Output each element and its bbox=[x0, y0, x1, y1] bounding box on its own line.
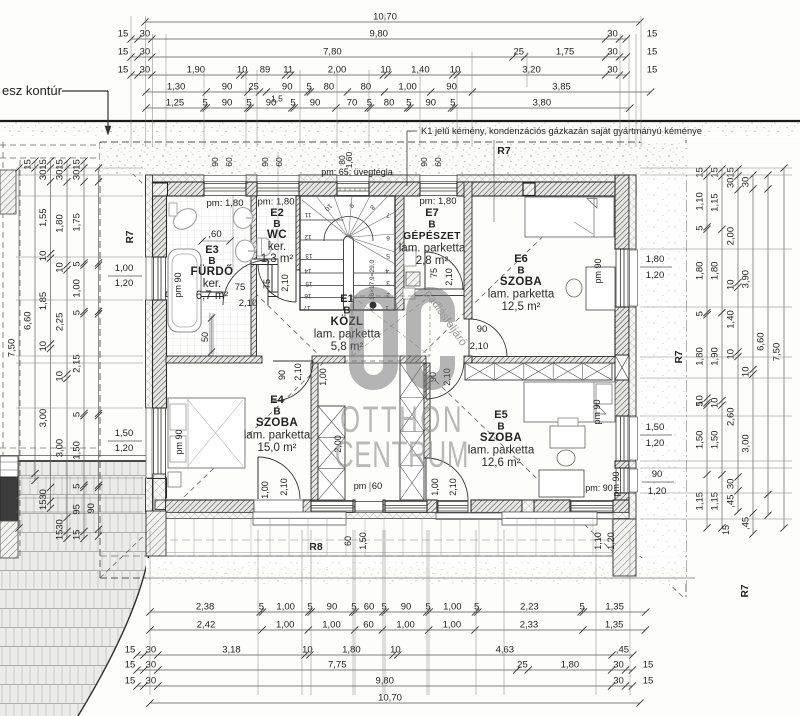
svg-text:15: 15 bbox=[726, 167, 737, 178]
exterior wall top: masonry bbox=[146, 182, 205, 196]
bottom witness verticals bbox=[149, 530, 151, 695]
svg-text:2,38: 2,38 bbox=[196, 602, 215, 613]
E5 bed bbox=[524, 382, 615, 422]
door bathroom (75) bbox=[267, 260, 269, 305]
top witness verticals bbox=[130, 16, 132, 147]
svg-text:75: 75 bbox=[429, 268, 439, 278]
svg-text:15: 15 bbox=[38, 499, 49, 510]
right wall crossed box at E6/E5 junction bbox=[615, 355, 629, 380]
svg-text:6: 6 bbox=[386, 234, 390, 241]
wall connector below wc bbox=[272, 265, 278, 293]
svg-text:90: 90 bbox=[446, 82, 457, 93]
neighbor wall hatch top-left bbox=[0, 170, 16, 214]
svg-text:80: 80 bbox=[361, 82, 372, 93]
svg-text:,60: ,60 bbox=[208, 229, 221, 240]
svg-text:90: 90 bbox=[652, 469, 663, 480]
passage lines corridor bbox=[345, 355, 400, 357]
wall wc/stairs V2 bbox=[296, 196, 302, 270]
svg-text:30: 30 bbox=[607, 29, 618, 40]
wc tile floor bbox=[256, 196, 296, 259]
E5 chair bbox=[557, 450, 575, 466]
chimney K1 hatched block bbox=[523, 183, 535, 196]
svg-text:1,00: 1,00 bbox=[72, 279, 83, 298]
svg-text:pm: 1,80: pm: 1,80 bbox=[207, 198, 244, 209]
svg-text:60: 60 bbox=[274, 157, 284, 167]
svg-text:25: 25 bbox=[248, 82, 259, 93]
svg-text:80: 80 bbox=[384, 98, 395, 109]
svg-text:7,75: 7,75 bbox=[328, 660, 347, 671]
svg-text:10: 10 bbox=[55, 262, 66, 273]
stipple band under contour line bbox=[0, 123, 800, 133]
svg-text:1,60: 1,60 bbox=[344, 151, 354, 168]
svg-text:3,85: 3,85 bbox=[552, 82, 571, 93]
svg-text:12: 12 bbox=[304, 233, 312, 240]
svg-text:7: 7 bbox=[386, 211, 390, 218]
right witness horizontals bbox=[640, 167, 792, 169]
svg-text:90: 90 bbox=[419, 157, 429, 167]
svg-text:lam. parketta: lam. parketta bbox=[488, 289, 555, 301]
svg-text:1,40: 1,40 bbox=[411, 65, 430, 76]
svg-text:15: 15 bbox=[305, 280, 313, 287]
svg-text:lam. parketta: lam. parketta bbox=[314, 329, 381, 341]
svg-text:15: 15 bbox=[643, 676, 654, 687]
svg-text:5: 5 bbox=[695, 401, 706, 406]
window W4 left (bathroom 90) bbox=[153, 257, 155, 300]
stipple band bottom bbox=[146, 558, 686, 584]
bathroom bottom wall bbox=[166, 292, 223, 297]
stair treads left flight bbox=[300, 219, 344, 221]
E4 bed double bbox=[168, 398, 245, 468]
svg-text:60: 60 bbox=[433, 157, 443, 167]
svg-text:3,90: 3,90 bbox=[741, 270, 752, 289]
svg-text:1,15: 1,15 bbox=[695, 492, 706, 511]
svg-text:90: 90 bbox=[310, 98, 321, 109]
svg-text:1,50: 1,50 bbox=[710, 431, 721, 450]
svg-text:1,20: 1,20 bbox=[115, 443, 134, 454]
ground line under terrace bbox=[146, 577, 695, 579]
svg-text:89: 89 bbox=[260, 65, 271, 76]
svg-text:1,15: 1,15 bbox=[710, 193, 721, 212]
svg-text:1,80: 1,80 bbox=[646, 254, 665, 265]
window W5 left (E4 1,50) bbox=[153, 408, 155, 478]
svg-text:30: 30 bbox=[613, 676, 624, 687]
svg-text:pm 90: pm 90 bbox=[592, 399, 602, 424]
svg-text:2,33: 2,33 bbox=[520, 620, 539, 631]
exterior wall right: masonry segments bbox=[615, 175, 629, 249]
svg-text:30: 30 bbox=[726, 479, 737, 490]
svg-text:1,20: 1,20 bbox=[115, 278, 134, 289]
svg-text:5: 5 bbox=[246, 98, 251, 109]
svg-text:1,3 m²: 1,3 m² bbox=[261, 253, 294, 265]
svg-text:30: 30 bbox=[607, 47, 618, 58]
stair central spine bbox=[343, 241, 345, 310]
svg-text:1,15: 1,15 bbox=[710, 492, 721, 511]
svg-text:2,10: 2,10 bbox=[444, 268, 454, 286]
wardrobe cabinet B (corridor/E5) bbox=[400, 363, 424, 500]
svg-text:esz kontúr: esz kontúr bbox=[2, 83, 63, 98]
svg-text:R8: R8 bbox=[309, 541, 323, 553]
svg-text:5: 5 bbox=[386, 252, 390, 259]
svg-text:25: 25 bbox=[517, 660, 528, 671]
svg-text:1,35: 1,35 bbox=[605, 620, 624, 631]
E5 desk bbox=[539, 470, 584, 497]
roof ridge bbox=[325, 360, 415, 362]
svg-text:15: 15 bbox=[643, 660, 654, 671]
svg-text:1,50: 1,50 bbox=[695, 431, 706, 450]
svg-text:6,60: 6,60 bbox=[756, 332, 767, 351]
bottom windows thin lines bbox=[311, 501, 353, 503]
svg-text:10,70: 10,70 bbox=[378, 693, 402, 704]
exterior wall right: insulation bbox=[629, 175, 636, 249]
svg-text:lam. parketta: lam. parketta bbox=[468, 445, 535, 457]
svg-text:30: 30 bbox=[146, 676, 157, 687]
door terrace E4 (1,00) bbox=[257, 457, 259, 499]
svg-text:5: 5 bbox=[72, 310, 83, 315]
svg-text:5: 5 bbox=[425, 602, 430, 613]
svg-text:15: 15 bbox=[125, 645, 136, 656]
svg-text:10: 10 bbox=[726, 349, 737, 360]
svg-text:1,00: 1,00 bbox=[430, 478, 440, 496]
svg-text:60: 60 bbox=[224, 157, 234, 167]
toilet bathroom bbox=[170, 204, 201, 233]
svg-text:2,8 m²: 2,8 m² bbox=[416, 255, 449, 267]
svg-text:95: 95 bbox=[72, 504, 83, 515]
stair fan lines bbox=[302, 200, 349, 237]
terrace pier left bbox=[146, 511, 166, 556]
svg-text:1,90: 1,90 bbox=[187, 65, 206, 76]
svg-text:15: 15 bbox=[695, 167, 706, 178]
svg-text:4: 4 bbox=[385, 267, 389, 274]
E6 desk bbox=[586, 267, 615, 310]
svg-text:90: 90 bbox=[222, 98, 233, 109]
svg-text:90: 90 bbox=[210, 157, 220, 167]
terrain boundary arc bbox=[78, 548, 150, 716]
svg-text:1,20: 1,20 bbox=[606, 532, 616, 550]
E6 bed bbox=[525, 197, 614, 237]
svg-text:11: 11 bbox=[304, 211, 311, 218]
svg-text:ker.: ker. bbox=[268, 241, 287, 253]
left margin terrace edge bbox=[0, 455, 147, 457]
svg-text:90: 90 bbox=[277, 370, 287, 380]
svg-text:2,10: 2,10 bbox=[280, 274, 290, 292]
svg-text:30: 30 bbox=[55, 519, 66, 530]
bottom-left corner column bbox=[153, 474, 166, 511]
svg-text:WC: WC bbox=[267, 229, 287, 241]
bottom dimension block bbox=[150, 611, 646, 613]
wall wc bottom bbox=[251, 259, 278, 265]
svg-text:15: 15 bbox=[647, 29, 658, 40]
watermark OC logo bbox=[357, 295, 448, 383]
svg-text:30: 30 bbox=[146, 645, 157, 656]
svg-text:5: 5 bbox=[381, 602, 386, 613]
bottom insulation strip bbox=[166, 513, 630, 519]
svg-text:B: B bbox=[273, 407, 280, 418]
left witness horizontals bbox=[16, 167, 143, 169]
svg-text:10: 10 bbox=[726, 279, 737, 290]
svg-text:1,00: 1,00 bbox=[443, 620, 462, 631]
svg-text:5: 5 bbox=[695, 225, 706, 230]
svg-text:10: 10 bbox=[380, 65, 391, 76]
svg-text:30: 30 bbox=[146, 660, 157, 671]
shower screen bathroom bbox=[209, 313, 211, 356]
wall bathroom/wc V1 bbox=[251, 196, 257, 356]
svg-text:1,00: 1,00 bbox=[276, 602, 295, 613]
svg-text:1,75: 1,75 bbox=[556, 47, 575, 58]
svg-text:E5: E5 bbox=[494, 409, 507, 421]
svg-text:3,18: 3,18 bbox=[222, 645, 241, 656]
protruding sill box right (E5 window) bbox=[502, 512, 597, 525]
right dimension block bbox=[706, 169, 708, 528]
svg-text:pm: 1,80: pm: 1,80 bbox=[420, 196, 457, 207]
svg-text:lam. parketta: lam. parketta bbox=[244, 430, 311, 442]
svg-text:30: 30 bbox=[607, 65, 618, 76]
svg-text:1,25: 1,25 bbox=[166, 98, 185, 109]
svg-text:15: 15 bbox=[118, 47, 129, 58]
svg-text:75: 75 bbox=[262, 279, 272, 289]
wall stairs right / E7 left bbox=[395, 196, 404, 310]
svg-text:3,00: 3,00 bbox=[38, 409, 49, 428]
stipple band right bbox=[637, 175, 686, 556]
watermark OTTHON CENTRUM bbox=[340, 398, 464, 440]
vanity counter bbox=[232, 196, 234, 270]
svg-text:90: 90 bbox=[222, 82, 233, 93]
svg-text:3: 3 bbox=[386, 279, 390, 286]
door E7 (75) bbox=[424, 252, 426, 290]
svg-text:5: 5 bbox=[72, 412, 83, 417]
svg-text:2,25: 2,25 bbox=[55, 313, 66, 332]
door E5 (1,00) bbox=[425, 458, 427, 500]
svg-text:K1 jelű kémény, kondenzációs g: K1 jelű kémény, kondenzációs gázkazán sa… bbox=[421, 126, 702, 136]
svg-text:1,20: 1,20 bbox=[646, 438, 665, 449]
svg-text:1,10: 1,10 bbox=[593, 532, 603, 550]
wall E6/E5 bbox=[472, 357, 615, 364]
svg-text:pm 90: pm 90 bbox=[174, 429, 184, 454]
svg-text:7,50: 7,50 bbox=[7, 339, 18, 358]
svg-text:5: 5 bbox=[695, 311, 706, 316]
staircase box bbox=[300, 196, 395, 310]
svg-text:1,50: 1,50 bbox=[115, 428, 134, 439]
svg-text:R7: R7 bbox=[497, 145, 511, 157]
main horizontal wall segments bbox=[166, 356, 262, 363]
svg-text:6,60: 6,60 bbox=[23, 311, 34, 330]
bottom door opening (60) bbox=[355, 501, 383, 503]
svg-text:9,80: 9,80 bbox=[369, 29, 388, 40]
window W8 right (E5 90) bbox=[615, 468, 617, 493]
roof hip diagonals bbox=[100, 142, 325, 361]
svg-text:1,85: 1,85 bbox=[38, 292, 49, 311]
svg-text:2,15: 2,15 bbox=[72, 354, 83, 373]
door E4 (90) bbox=[273, 360, 313, 362]
svg-text:30: 30 bbox=[140, 65, 151, 76]
svg-text:60: 60 bbox=[364, 602, 375, 613]
svg-text:1,00: 1,00 bbox=[260, 481, 270, 499]
window W3 top (gepeszet) bbox=[420, 183, 457, 185]
exterior wall top: insulation bbox=[146, 175, 205, 182]
svg-text:12,5 m²: 12,5 m² bbox=[502, 301, 541, 313]
paving terrain bottom-left bbox=[0, 462, 150, 716]
svg-text:25: 25 bbox=[513, 47, 524, 58]
svg-text:2,10: 2,10 bbox=[448, 478, 458, 496]
svg-text:1,55: 1,55 bbox=[38, 208, 49, 227]
svg-text:2,60: 2,60 bbox=[726, 407, 737, 426]
svg-text:90: 90 bbox=[260, 157, 270, 167]
neighbor window left bbox=[0, 456, 18, 477]
svg-text:2,42: 2,42 bbox=[197, 620, 216, 631]
protruding sill box left (door+window) bbox=[253, 512, 346, 525]
svg-text:3,80: 3,80 bbox=[533, 98, 552, 109]
door corridor B (90) bbox=[425, 361, 427, 399]
svg-text:5: 5 bbox=[351, 602, 356, 613]
svg-text:3,00: 3,00 bbox=[741, 434, 752, 453]
neighbor wall hatch left-bottom bbox=[0, 521, 18, 558]
svg-text:7,50: 7,50 bbox=[772, 343, 783, 362]
svg-text:5: 5 bbox=[307, 82, 312, 93]
svg-text:2,10: 2,10 bbox=[239, 298, 258, 309]
attic hatch dashed bbox=[352, 296, 430, 356]
gepeszet sink bbox=[406, 272, 420, 286]
svg-text:,45: ,45 bbox=[726, 495, 737, 508]
svg-text:4,63: 4,63 bbox=[496, 645, 515, 656]
svg-text:1,80: 1,80 bbox=[55, 214, 66, 233]
neighbor wall black left bbox=[0, 477, 18, 521]
svg-text:1,20: 1,20 bbox=[646, 270, 665, 281]
svg-text:1,00: 1,00 bbox=[276, 620, 295, 631]
svg-text:30: 30 bbox=[140, 47, 151, 58]
svg-text:5: 5 bbox=[406, 98, 411, 109]
sill strip boxes bbox=[436, 513, 505, 520]
svg-text:90: 90 bbox=[477, 324, 488, 335]
svg-text:E3: E3 bbox=[205, 244, 218, 256]
svg-text:15: 15 bbox=[710, 167, 721, 178]
svg-text:1,40: 1,40 bbox=[726, 310, 737, 329]
wall E5 left V7 bbox=[424, 363, 430, 458]
svg-text:1,00: 1,00 bbox=[398, 82, 417, 93]
bottom wall xhatch pier bbox=[522, 500, 534, 513]
exterior wall left: masonry segments bbox=[153, 196, 167, 257]
svg-text:1,80: 1,80 bbox=[342, 645, 361, 656]
wall E7 bottom bbox=[404, 289, 472, 296]
E4 nightstand bbox=[168, 472, 181, 487]
svg-text:CENTRUM: CENTRUM bbox=[335, 433, 469, 475]
E5 dresser bbox=[550, 426, 585, 448]
neighbor building dashed contour left bbox=[2, 142, 4, 560]
svg-text:2,10: 2,10 bbox=[293, 363, 303, 381]
svg-text:pm: 1,80: pm: 1,80 bbox=[258, 197, 295, 208]
svg-text:E2: E2 bbox=[270, 207, 283, 219]
svg-text:3,20: 3,20 bbox=[522, 65, 541, 76]
wall E7/E6 V4 bbox=[464, 182, 472, 319]
svg-text:1,35: 1,35 bbox=[605, 602, 624, 613]
svg-text:E7: E7 bbox=[425, 207, 438, 219]
svg-text:2,00: 2,00 bbox=[726, 227, 737, 246]
svg-text:1,80: 1,80 bbox=[710, 262, 721, 281]
svg-text:15: 15 bbox=[118, 65, 129, 76]
svg-text:10: 10 bbox=[450, 65, 461, 76]
svg-text:90: 90 bbox=[282, 82, 293, 93]
svg-text:5: 5 bbox=[259, 602, 264, 613]
stipple band top bbox=[100, 143, 688, 174]
svg-text:1,00: 1,00 bbox=[115, 263, 134, 274]
svg-text:90: 90 bbox=[327, 602, 338, 613]
svg-text:10: 10 bbox=[55, 371, 66, 382]
svg-text:lam. parketta: lam. parketta bbox=[399, 243, 466, 255]
svg-text:15: 15 bbox=[55, 530, 66, 541]
svg-text:90: 90 bbox=[401, 602, 412, 613]
terrace tile grid bbox=[146, 519, 630, 557]
svg-text:1,20: 1,20 bbox=[648, 486, 667, 497]
svg-text:16: 16 bbox=[304, 292, 312, 299]
bathtub bbox=[168, 249, 201, 332]
svg-text:FÜRDŐ: FÜRDŐ bbox=[191, 265, 234, 278]
svg-text:5: 5 bbox=[307, 602, 312, 613]
svg-text:1,10: 1,10 bbox=[695, 192, 706, 211]
basin 1 bbox=[234, 208, 253, 229]
svg-text:5: 5 bbox=[202, 98, 207, 109]
svg-text:30: 30 bbox=[741, 177, 752, 188]
svg-text:5: 5 bbox=[72, 484, 83, 489]
svg-text:1,50: 1,50 bbox=[646, 422, 665, 433]
terrace pier right bbox=[613, 519, 636, 576]
E6 chair bbox=[566, 279, 582, 297]
svg-text:17: 17 bbox=[303, 304, 311, 311]
svg-text:13: 13 bbox=[305, 252, 313, 259]
svg-text:90: 90 bbox=[425, 98, 436, 109]
svg-text:10: 10 bbox=[390, 645, 401, 656]
thick contour line top bbox=[0, 120, 800, 122]
svg-text:pm: 90: pm: 90 bbox=[585, 483, 613, 493]
svg-text:10: 10 bbox=[38, 251, 49, 262]
wall E4 right V6 bbox=[311, 363, 318, 500]
exterior wall left: insulation bbox=[146, 175, 153, 257]
svg-text:5: 5 bbox=[580, 602, 585, 613]
svg-text:1,00: 1,00 bbox=[396, 620, 415, 631]
wardrobe band E5 top bbox=[465, 363, 612, 380]
exterior wall bottom masonry segments bbox=[166, 500, 255, 513]
svg-text:30: 30 bbox=[726, 178, 737, 189]
svg-text:6,7 m²: 6,7 m² bbox=[196, 290, 229, 302]
svg-text:R7: R7 bbox=[125, 230, 136, 243]
svg-text:80: 80 bbox=[324, 82, 335, 93]
svg-text:15: 15 bbox=[721, 525, 731, 535]
svg-text:2,10: 2,10 bbox=[279, 478, 289, 496]
svg-text:pm 90: pm 90 bbox=[173, 272, 183, 297]
svg-text:11: 11 bbox=[283, 65, 293, 76]
svg-text:15: 15 bbox=[118, 29, 129, 40]
svg-text:1,00: 1,00 bbox=[318, 368, 328, 386]
stair treads right flight bbox=[354, 272, 396, 274]
svg-text:1,80: 1,80 bbox=[695, 347, 706, 366]
svg-text:1,00: 1,00 bbox=[322, 620, 341, 631]
svg-text:1,30: 1,30 bbox=[167, 82, 186, 93]
window W6 right (E6 1,80) bbox=[615, 249, 617, 307]
svg-text:ker.: ker. bbox=[203, 278, 222, 290]
svg-text:SZOBA: SZOBA bbox=[500, 276, 542, 288]
svg-text:GÉPÉSZET: GÉPÉSZET bbox=[403, 229, 461, 242]
svg-text:75: 75 bbox=[235, 282, 246, 293]
svg-text:70: 70 bbox=[347, 98, 358, 109]
svg-text:5: 5 bbox=[450, 98, 455, 109]
property boundary dash-dot right bbox=[685, 140, 687, 600]
roof eaves dashed outline bbox=[100, 141, 640, 143]
stair landing arc bbox=[324, 217, 373, 242]
svg-text:E6: E6 bbox=[514, 253, 527, 265]
window W1 top (bathroom) bbox=[204, 183, 246, 185]
svg-text:60: 60 bbox=[372, 481, 383, 492]
svg-text:SZOBA: SZOBA bbox=[256, 417, 298, 429]
door wc (75) bbox=[295, 264, 297, 302]
bathroom tile floor bbox=[166, 196, 251, 292]
svg-text:30: 30 bbox=[613, 660, 624, 671]
